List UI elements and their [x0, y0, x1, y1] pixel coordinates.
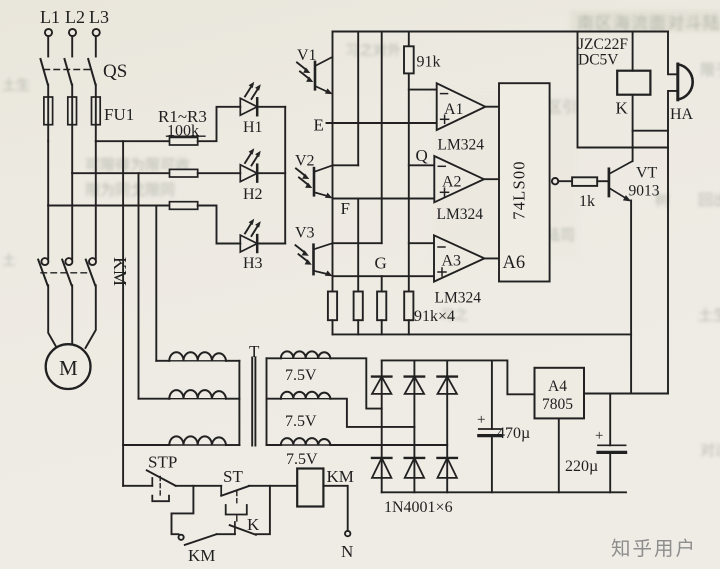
wire column4 upper	[408, 32, 410, 47]
svg-text:74LS00: 74LS00	[510, 160, 529, 219]
wire into primary3	[123, 444, 169, 446]
resistor 91k top	[404, 46, 441, 73]
wire column4 lower	[408, 73, 410, 291]
wire primary1 right	[226, 360, 239, 362]
diode D1 top	[372, 377, 391, 394]
svg-text:LM324: LM324	[438, 137, 485, 154]
wire secondary2 to bridge	[330, 399, 414, 427]
svg-text:91k×4: 91k×4	[414, 308, 455, 325]
svg-text:A4: A4	[548, 378, 567, 395]
LED H1	[240, 82, 262, 136]
wire top supply rail	[333, 31, 669, 33]
wire primary2 right	[226, 398, 239, 400]
wire column1	[332, 32, 334, 292]
node F row	[333, 199, 435, 219]
wire A1 output	[485, 106, 499, 108]
wire L1 drop	[47, 36, 49, 56]
svg-text:LM324: LM324	[435, 290, 482, 307]
wire collector up / coil bottom	[632, 95, 634, 162]
wire secondary common	[266, 358, 268, 445]
wire tap branch3 down	[155, 206, 157, 361]
wire branch row2	[72, 172, 169, 174]
svg-text:G: G	[375, 254, 387, 273]
svg-text:限为同戈限同: 限为同戈限同	[85, 182, 175, 199]
wire secondary1 to bridge	[330, 358, 381, 408]
transformer T primary winding 1	[169, 352, 226, 361]
transformer T secondary winding 1	[281, 351, 331, 384]
svg-text:E: E	[314, 116, 324, 135]
wire L2 drop	[71, 36, 73, 56]
svg-text:ST: ST	[223, 467, 243, 486]
wire bottom bus	[382, 491, 626, 493]
wire JZC left branch	[578, 32, 669, 148]
coil KM	[297, 467, 354, 507]
wire bubble to 1k	[558, 180, 572, 182]
svg-text:KM: KM	[110, 257, 130, 286]
wire 7805 out row	[584, 393, 668, 395]
svg-text:FU1: FU1	[104, 105, 134, 124]
svg-text:220µ: 220µ	[565, 458, 598, 475]
wire K to node B	[256, 486, 270, 534]
wire bridge column3	[446, 360, 448, 492]
wire bridge plus bus	[382, 360, 535, 394]
wire primary3 right	[226, 444, 239, 446]
contact KM auxiliary	[179, 534, 217, 565]
wire secondary3 to bridge	[330, 444, 447, 446]
wire KM aux to K	[217, 533, 235, 535]
svg-text:土: 土	[2, 253, 16, 269]
resistor 91k x4 no4	[404, 292, 413, 321]
wire L3 drop	[95, 36, 97, 56]
wire QS to FU1 pole3	[95, 85, 97, 142]
svg-text:L3: L3	[89, 7, 109, 27]
svg-text:M: M	[59, 356, 78, 380]
wire tap branch2 down	[138, 173, 140, 399]
IC 74LS00 A6	[499, 83, 550, 281]
wire jog column3 to column1	[333, 242, 382, 244]
svg-text:H1: H1	[243, 119, 263, 136]
wire A2 output	[484, 178, 499, 180]
wire R1 to H1	[198, 107, 241, 141]
transformer T secondary winding 3	[281, 438, 331, 468]
svg-text:7.5V: 7.5V	[286, 451, 318, 468]
wire r2 bottom stub	[357, 320, 359, 334]
wire 7805 gnd	[558, 418, 560, 492]
wire r4 bottom stub	[408, 320, 410, 334]
wire pole2 down	[71, 173, 73, 259]
wire R3 to H3	[198, 206, 241, 244]
svg-text:VT: VT	[636, 165, 658, 182]
LED H3	[240, 219, 262, 272]
phototransistor V1	[297, 47, 333, 94]
phototransistor V3	[295, 225, 333, 277]
sounder HA	[670, 64, 694, 123]
svg-text:A1: A1	[444, 101, 464, 118]
svg-text:V3: V3	[295, 225, 315, 242]
svg-text:K: K	[247, 515, 260, 534]
node G row	[333, 254, 435, 277]
resistor 91k x4 no2	[354, 292, 363, 321]
wire QS to FU1 pole1	[47, 85, 49, 142]
wire H3 cathode	[257, 243, 285, 245]
diode D5 bottom	[405, 458, 424, 478]
wire column2 upper	[357, 32, 359, 166]
wire R2 to H2	[198, 172, 241, 174]
wire right supply vertical	[667, 131, 669, 394]
op-amp A3	[434, 235, 484, 306]
svg-text:知乎用户: 知乎用户	[611, 538, 697, 560]
svg-text:习之对外: 习之对外	[345, 43, 401, 59]
wire pole1 to motor	[48, 285, 57, 348]
svg-text:N: N	[341, 542, 353, 561]
svg-text:Q: Q	[416, 146, 428, 165]
svg-text:H3: H3	[243, 255, 263, 272]
svg-text:区引: 区引	[547, 99, 577, 116]
svg-text:9013: 9013	[629, 183, 660, 200]
wire pole1 down	[47, 141, 49, 205]
wire primary common	[238, 361, 240, 445]
fuse FU1 pole3	[92, 97, 101, 125]
capacitor 220u	[565, 394, 626, 493]
transistor VT 9013	[609, 161, 660, 201]
contactor KM main contact pole2	[62, 258, 72, 285]
wire pole2 to motor	[71, 285, 73, 345]
op-amp A2	[434, 156, 484, 223]
label R1~R3 100k	[158, 107, 207, 140]
svg-text:470µ: 470µ	[497, 425, 530, 442]
wire pole1 down2	[47, 206, 49, 260]
wire r1 bottom stub	[332, 320, 334, 334]
svg-text:L2: L2	[65, 7, 85, 27]
wire 1k to base	[597, 180, 607, 182]
wire STP to ST	[176, 485, 222, 487]
svg-text:V1: V1	[297, 47, 317, 64]
pushbutton ST	[221, 467, 249, 515]
svg-text:7.5V: 7.5V	[285, 367, 317, 384]
wire coil KM to N	[323, 486, 347, 531]
svg-text:QS: QS	[103, 61, 127, 82]
pushbutton STP	[147, 453, 177, 502]
wire into primary2	[139, 398, 170, 400]
diode D6 bottom	[438, 458, 457, 478]
wire r3 bottom stub	[381, 320, 383, 334]
svg-text:A3: A3	[442, 253, 462, 270]
wire branch row1	[96, 140, 170, 142]
svg-text:对过: 对过	[700, 442, 720, 459]
switch QS	[41, 59, 128, 85]
capacitor 470u	[477, 360, 530, 492]
svg-text:土生: 土生	[2, 78, 30, 94]
terminal L3	[89, 7, 109, 36]
svg-text:DC5V: DC5V	[578, 52, 619, 69]
wire 91k bus	[333, 333, 632, 335]
svg-text:限于: 限于	[700, 62, 720, 79]
wire coil top to rail	[632, 32, 634, 71]
svg-text:STP: STP	[148, 453, 177, 472]
wire bridge column1	[381, 360, 383, 492]
resistor 91k x4 no3	[377, 292, 386, 321]
terminal L2	[65, 7, 85, 36]
wire emitter down	[630, 201, 632, 394]
svg-text:K: K	[616, 99, 629, 118]
wire H1 cathode	[257, 106, 285, 108]
wire secondary2 left stub	[267, 398, 281, 400]
svg-text:V2: V2	[295, 153, 315, 170]
wire HA bottom	[633, 91, 678, 131]
svg-text:JZC22F: JZC22F	[578, 36, 628, 53]
KM linkage dashed	[41, 272, 89, 274]
svg-text:HA: HA	[670, 106, 694, 123]
wire jog column2 to column1	[333, 164, 359, 166]
wire ST to coil KM	[249, 485, 297, 487]
contactor KM main contact pole3	[86, 258, 96, 285]
svg-text:L1: L1	[40, 7, 60, 27]
wire H2 cathode	[257, 172, 285, 174]
wire node A down jog	[172, 486, 194, 534]
diode D4 bottom	[372, 458, 391, 478]
wire column2 lower	[357, 199, 359, 292]
svg-text:T: T	[249, 342, 260, 361]
wire secondary1 left stub	[267, 357, 281, 359]
svg-text:KM: KM	[188, 546, 215, 565]
svg-text:F: F	[341, 199, 350, 218]
wire tap branch1 down	[122, 141, 124, 486]
wire rail corner to HA top	[668, 32, 678, 75]
svg-text:100k: 100k	[167, 123, 199, 140]
svg-text:1k: 1k	[579, 193, 595, 210]
node E row	[314, 116, 437, 135]
resistor R1	[170, 137, 198, 145]
LED H2	[240, 148, 262, 203]
node Q row	[409, 146, 435, 165]
resistor 1k	[572, 177, 597, 210]
svg-text:7805: 7805	[542, 396, 573, 413]
fuse FU1 pole2	[68, 97, 77, 125]
contact K	[230, 515, 260, 535]
diode D2 top	[405, 377, 424, 394]
transformer T primary winding 3	[169, 436, 226, 445]
wire pole3 down	[95, 141, 97, 259]
wire branch row3	[48, 205, 169, 207]
wire QS to FU1 pole2	[71, 85, 73, 174]
svg-text:+: +	[477, 412, 485, 428]
wire pole3 to motor	[86, 285, 96, 348]
svg-text:KM: KM	[327, 467, 354, 486]
terminal N	[341, 531, 353, 561]
svg-text:A6: A6	[503, 253, 526, 273]
svg-text:1N4001×6: 1N4001×6	[384, 499, 453, 516]
wire column3	[381, 32, 383, 244]
motor M	[46, 344, 91, 389]
svg-text:A2: A2	[442, 174, 462, 191]
svg-text:LM324: LM324	[437, 206, 484, 223]
wire bridge column2	[413, 360, 415, 492]
transformer T primary winding 2	[169, 390, 226, 399]
fuse FU1 pole1	[44, 97, 53, 125]
svg-text:土生: 土生	[698, 307, 720, 324]
wire A1 inverting row	[409, 89, 437, 91]
contactor KM main contact pole1	[38, 258, 48, 285]
svg-text:H2: H2	[243, 186, 263, 203]
terminal L1	[40, 7, 60, 36]
label JZC22F DC5V	[578, 36, 628, 69]
regulator A4 7805	[535, 368, 585, 419]
wire secondary3 left stub	[267, 444, 281, 446]
wire A3 output	[484, 257, 499, 259]
resistor R3	[170, 202, 198, 210]
op-amp A1	[437, 83, 486, 153]
wire control row bottom	[123, 485, 152, 487]
transformer T secondary winding 2	[281, 392, 331, 430]
svg-text:+: +	[595, 428, 603, 444]
wire r3 top stub	[381, 276, 383, 291]
wire into primary1	[156, 360, 169, 362]
relay coil K	[616, 71, 651, 118]
inverter bubble	[552, 178, 558, 184]
wire A3 inverting row	[409, 242, 434, 244]
phototransistor V2	[295, 153, 333, 199]
transformer core	[252, 358, 255, 446]
svg-text:南区海流面对斗陆上: 南区海流面对斗陆上	[577, 14, 720, 33]
svg-text:回出: 回出	[698, 192, 720, 209]
svg-text:91k: 91k	[417, 54, 441, 71]
resistor 91k x4 no1	[328, 292, 337, 321]
diode D3 top	[438, 377, 457, 394]
wire LED common bus	[284, 107, 286, 244]
svg-text:7.5V: 7.5V	[285, 413, 317, 430]
resistor R2	[170, 169, 198, 177]
